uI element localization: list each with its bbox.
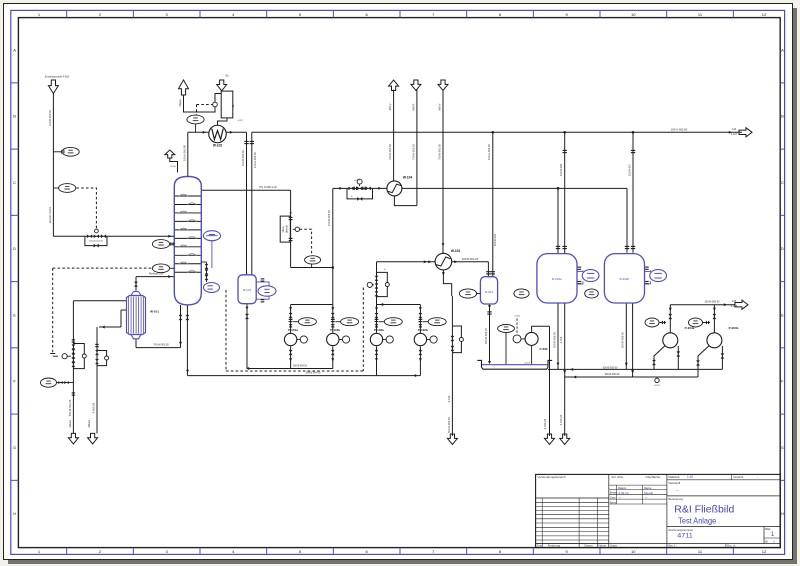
svg-text:5.09.13: 5.09.13: [619, 491, 629, 495]
svg-text:Oberfläche: Oberfläche: [645, 475, 660, 479]
svg-text:Ablauf: Ablauf: [68, 420, 72, 428]
svg-text:4-018: 4-018: [731, 305, 738, 308]
svg-text:500-B-004-50: 500-B-004-50: [293, 366, 308, 368]
svg-text:4-017: 4-017: [354, 180, 360, 182]
svg-text:P-101a: P-101a: [288, 328, 298, 332]
svg-text:100-B-008-50: 100-B-008-50: [704, 301, 720, 304]
svg-text:—: —: [676, 489, 679, 493]
svg-text:500-K-003-50: 500-K-003-50: [447, 417, 451, 433]
svg-text:1:10: 1:10: [687, 475, 693, 479]
svg-text:500-B-004-50: 500-B-004-50: [306, 372, 321, 375]
svg-text:Zeichnungsnummer: Zeichnungsnummer: [669, 528, 694, 532]
svg-text:B: B: [781, 114, 784, 119]
svg-text:300-B-003: 300-B-003: [493, 233, 497, 246]
svg-text:100-A-002-80: 100-A-002-80: [671, 128, 688, 132]
svg-text:Mogull: Mogull: [644, 491, 653, 495]
svg-text:C: C: [781, 180, 784, 185]
svg-text:A-B: A-B: [732, 128, 737, 131]
svg-text:W-102: W-102: [213, 144, 223, 148]
svg-text:Bearb.: Bearb.: [610, 491, 618, 495]
svg-text:100-A-003-50: 100-A-003-50: [253, 152, 257, 168]
svg-text:E: E: [13, 312, 16, 317]
svg-text:Maßstab: Maßstab: [669, 475, 680, 479]
svg-text:PG 9-090-1-W: PG 9-090-1-W: [259, 185, 277, 189]
svg-text:4-019: 4-019: [524, 362, 530, 364]
svg-text:100-B-004-50: 100-B-004-50: [327, 210, 331, 226]
svg-text:Gepr.: Gepr.: [610, 495, 617, 499]
svg-text:4-021: 4-021: [654, 385, 660, 387]
svg-text:700-K-001-50: 700-K-001-50: [411, 144, 415, 160]
svg-text:100-B-006: 100-B-006: [559, 163, 563, 176]
svg-text:D: D: [781, 246, 784, 251]
svg-text:B: B: [13, 114, 16, 119]
svg-text:Zust.: Zust.: [537, 544, 543, 548]
svg-text:W-104: W-104: [403, 176, 413, 180]
svg-text:P-204b: P-204b: [729, 326, 739, 330]
svg-text:E: E: [781, 312, 784, 317]
svg-text:B-101: B-101: [243, 288, 251, 292]
svg-text:Einsatz 4-001: Einsatz 4-001: [48, 207, 52, 223]
svg-text:Datum: Datum: [584, 544, 593, 548]
svg-text:-: -: [757, 475, 758, 479]
svg-text:100-W-001-50: 100-W-001-50: [89, 241, 104, 243]
svg-text:Ers. d.:: Ers. d.:: [727, 544, 736, 548]
svg-text:Zul. Abw.: Zul. Abw.: [612, 475, 624, 479]
svg-text:A: A: [13, 47, 16, 52]
svg-text:Verwendungsbereich: Verwendungsbereich: [538, 475, 566, 479]
svg-text:KW-V: KW-V: [437, 103, 441, 110]
svg-text:12: 12: [762, 549, 767, 554]
svg-text:Urspr.: Urspr.: [610, 544, 618, 548]
svg-text:Test Anlage: Test Anlage: [678, 516, 716, 525]
svg-text:W-103: W-103: [451, 249, 461, 253]
svg-text:P-102a: P-102a: [374, 328, 384, 332]
svg-text:B-201: B-201: [485, 290, 493, 294]
svg-text:500-B-005-50: 500-B-005-50: [553, 332, 557, 348]
svg-text:W-101: W-101: [150, 310, 159, 314]
svg-text:4-014: 4-014: [559, 336, 563, 343]
svg-text:B-202b: B-202b: [620, 277, 630, 281]
svg-text:P-101b: P-101b: [330, 328, 340, 332]
svg-text:300-B-005-25: 300-B-005-25: [484, 328, 488, 344]
svg-text:100-B-001-50: 100-B-001-50: [48, 110, 52, 126]
svg-text:P-102b: P-102b: [418, 328, 428, 332]
svg-text:B-202a: B-202a: [552, 277, 562, 281]
svg-text:1: 1: [771, 531, 775, 538]
svg-text:300-B-003-25: 300-B-003-25: [462, 257, 479, 261]
svg-text:12: 12: [762, 12, 767, 17]
svg-text:100-A-001-80: 100-A-001-80: [182, 145, 186, 161]
svg-text:700-K-001-50: 700-K-001-50: [388, 144, 392, 160]
svg-text:Ablauf: Ablauf: [87, 420, 91, 428]
svg-text:500-W-002-25: 500-W-002-25: [68, 399, 72, 416]
svg-text:Name: Name: [599, 544, 607, 548]
svg-text:blende: blende: [285, 225, 289, 233]
svg-text:Name: Name: [644, 486, 652, 490]
svg-text:500-B-005-50: 500-B-005-50: [603, 366, 618, 369]
svg-text:Abgas: Abgas: [178, 99, 182, 107]
svg-text:100-B-007: 100-B-007: [628, 163, 632, 176]
svg-text:100-A-004-50: 100-A-004-50: [487, 144, 491, 160]
svg-text:A: A: [781, 47, 784, 52]
svg-text:4-016: 4-016: [514, 316, 520, 318]
svg-text:G: G: [781, 445, 784, 450]
svg-text:KW-R: KW-R: [411, 103, 415, 110]
svg-text:500-B-006-50: 500-B-006-50: [605, 373, 620, 376]
svg-text:4-013: 4-013: [447, 395, 451, 402]
svg-text:C: C: [13, 180, 16, 185]
svg-text:Einsatzprodukt 4-001: Einsatzprodukt 4-001: [45, 75, 70, 79]
svg-text:H: H: [781, 511, 784, 516]
svg-text:4-003-25: 4-003-25: [91, 402, 95, 413]
svg-text:500-B-006-50: 500-B-006-50: [621, 332, 625, 348]
svg-text:Mess-: Mess-: [281, 225, 285, 232]
svg-text:700-K-001-50: 700-K-001-50: [437, 144, 441, 160]
svg-text:A-B: A-B: [732, 300, 737, 303]
svg-text:Ers. f.:: Ers. f.:: [669, 544, 677, 548]
svg-text:KW-V: KW-V: [388, 103, 392, 110]
svg-text:H: H: [13, 511, 16, 516]
svg-text:700-W-001-50: 700-W-001-50: [153, 344, 169, 347]
svg-text:4711: 4711: [677, 532, 693, 539]
svg-text:10: 10: [631, 12, 636, 17]
svg-text:P-202: P-202: [539, 347, 547, 351]
svg-text:4-020-25: 4-020-25: [543, 418, 547, 429]
svg-text:Bl.: Bl.: [765, 539, 768, 543]
svg-text:4-017: 4-017: [731, 133, 738, 136]
svg-text:D: D: [13, 246, 16, 251]
svg-text:R&I Fließbild: R&I Fließbild: [674, 505, 734, 516]
svg-text:Benennung: Benennung: [669, 497, 684, 501]
svg-text:Werkstoff: Werkstoff: [669, 481, 681, 485]
svg-text:G: G: [13, 445, 16, 450]
svg-text:100-B-002-50: 100-B-002-50: [241, 150, 245, 166]
svg-text:Gewicht: Gewicht: [733, 475, 743, 479]
svg-text:Datum: Datum: [618, 486, 627, 490]
svg-text:4-010: 4-010: [170, 166, 176, 168]
svg-text:10: 10: [631, 549, 636, 554]
svg-text:4-015-25: 4-015-25: [559, 414, 563, 425]
svg-text:Norm: Norm: [610, 500, 616, 504]
svg-text:4-012: 4-012: [237, 120, 243, 122]
svg-text:Änderung: Änderung: [548, 544, 561, 548]
